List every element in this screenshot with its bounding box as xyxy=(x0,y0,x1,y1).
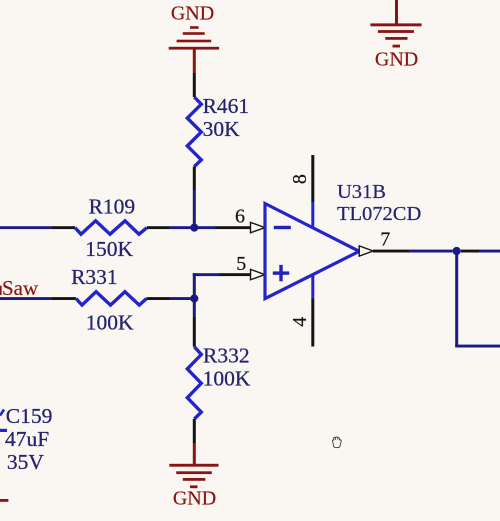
svg-text:100K: 100K xyxy=(86,310,134,334)
svg-text:47uF: 47uF xyxy=(5,427,49,451)
svg-text:150K: 150K xyxy=(85,237,133,261)
svg-text:7: 7 xyxy=(380,228,390,250)
svg-text:4: 4 xyxy=(289,317,311,327)
svg-text:GND: GND xyxy=(171,3,214,25)
svg-text:R461: R461 xyxy=(203,94,250,118)
svg-text:R109: R109 xyxy=(89,195,136,219)
svg-text:U31B: U31B xyxy=(337,181,386,203)
svg-text:GND: GND xyxy=(173,488,216,510)
svg-text:R331: R331 xyxy=(71,265,118,289)
svg-text:30K: 30K xyxy=(203,117,241,141)
svg-text:8: 8 xyxy=(289,174,311,184)
svg-text:GND: GND xyxy=(375,49,418,71)
svg-text:Saw: Saw xyxy=(2,276,39,300)
svg-text:C159: C159 xyxy=(6,404,53,428)
svg-text:TL072CD: TL072CD xyxy=(337,203,421,225)
svg-text:6: 6 xyxy=(235,206,245,228)
svg-text:5: 5 xyxy=(236,253,246,275)
svg-text:100K: 100K xyxy=(203,366,251,390)
svg-text:R332: R332 xyxy=(203,344,250,368)
svg-text:35V: 35V xyxy=(7,450,45,474)
